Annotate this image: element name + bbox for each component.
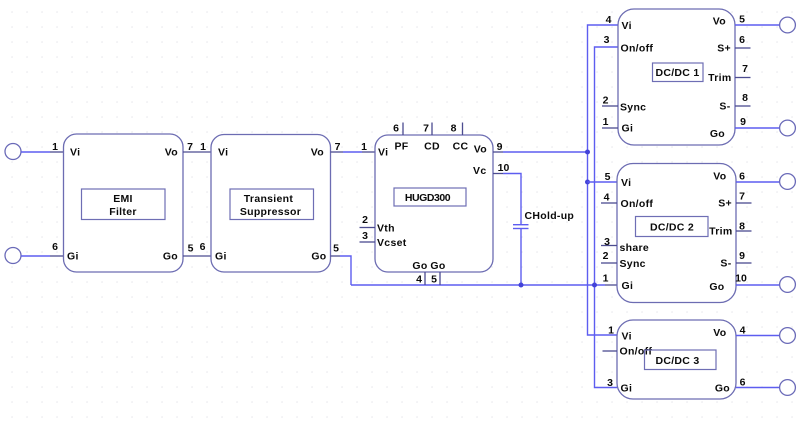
svg-text:Gi: Gi — [622, 123, 634, 135]
svg-text:4: 4 — [604, 192, 610, 204]
pin stub CD pin 7 — [431, 123, 433, 136]
wire HUGD Vo pin 9 to supply bus — [493, 151, 503, 153]
output terminal circle DCDC3 Go — [780, 380, 796, 396]
pin stub S+ pin 6 — [735, 47, 751, 49]
svg-text:Vi: Vi — [378, 147, 388, 159]
svg-text:S+: S+ — [718, 198, 732, 210]
pin stub Trim pin 8 — [736, 230, 752, 232]
svg-text:9: 9 — [739, 250, 745, 262]
svg-text:Vi: Vi — [621, 177, 631, 189]
pin stub PF pin 6 — [402, 123, 404, 136]
svg-text:Go: Go — [412, 260, 427, 272]
svg-text:Vcset: Vcset — [377, 237, 407, 249]
wire input to EMI Vi — [21, 151, 50, 153]
svg-text:Gi: Gi — [215, 251, 227, 263]
junction supply bus / DCDC2 Vi — [585, 180, 590, 185]
svg-text:8: 8 — [451, 123, 457, 135]
pin stub S- pin 8 — [735, 105, 751, 107]
svg-text:Go: Go — [430, 260, 445, 272]
pin stub Go pin 5 — [439, 272, 441, 285]
svg-text:S+: S+ — [717, 43, 731, 55]
output terminal circle DCDC1 Go — [780, 120, 796, 136]
EMI Filter label box — [82, 189, 166, 220]
wire DCDC2 Go pin 10 to output — [736, 284, 780, 286]
pin stub CC pin 8 — [462, 123, 464, 136]
svg-text:3: 3 — [362, 230, 368, 242]
svg-text:7: 7 — [739, 191, 745, 203]
pin stub On/off pin 4 — [601, 202, 617, 204]
svg-text:9: 9 — [497, 141, 503, 153]
HUGD300 block — [375, 135, 493, 272]
output terminal circle DCDC2 Go — [780, 277, 796, 293]
svg-text:6: 6 — [200, 241, 206, 253]
ground bus (bottom horizontal wire) — [351, 284, 605, 286]
DC/DC 3 block — [617, 320, 736, 399]
output terminal circle DCDC1 Vo — [780, 17, 796, 33]
svg-text:Go: Go — [311, 251, 326, 263]
pin stub S- pin 9 — [736, 262, 752, 264]
Transient Suppressor block — [211, 135, 331, 273]
wire TS Vo to HUGD300 Vi — [331, 151, 344, 153]
capacitor CHold-up — [513, 224, 529, 226]
svg-text:10: 10 — [498, 162, 510, 174]
svg-text:CC: CC — [453, 141, 469, 153]
svg-text:On/off: On/off — [620, 346, 653, 358]
svg-text:4: 4 — [416, 274, 422, 286]
svg-text:7: 7 — [742, 63, 748, 75]
svg-text:5: 5 — [605, 171, 611, 183]
svg-text:2: 2 — [362, 214, 368, 226]
svg-text:Vth: Vth — [377, 223, 395, 235]
wire HUGD Vc pin 10 to CHold-up — [493, 173, 503, 175]
svg-text:Vi: Vi — [70, 147, 80, 159]
input terminal circle (bottom left) — [5, 248, 21, 264]
svg-text:1: 1 — [200, 141, 206, 153]
output terminal circle DCDC2 Vo — [780, 174, 796, 190]
svg-text:6: 6 — [740, 377, 746, 389]
pin stub EMI Gi pin 6 — [50, 255, 64, 257]
svg-text:Vo: Vo — [165, 147, 178, 159]
DC/DC 3 label box — [645, 350, 717, 370]
svg-text:6: 6 — [52, 241, 58, 253]
svg-text:Gi: Gi — [621, 383, 633, 395]
svg-text:Gi: Gi — [622, 280, 634, 292]
svg-text:2: 2 — [603, 250, 609, 262]
DC/DC 1 block — [618, 9, 735, 145]
svg-text:Go: Go — [710, 128, 725, 140]
svg-text:Transient: Transient — [244, 193, 294, 205]
wire DCDC1 Go pin 9 to output — [735, 127, 780, 129]
svg-text:PF: PF — [394, 141, 408, 153]
DC/DC 1 label box — [653, 63, 704, 82]
svg-text:Vi: Vi — [218, 147, 228, 159]
svg-text:share: share — [620, 242, 650, 254]
junction ground bus / on-off bus — [592, 283, 597, 288]
svg-text:7: 7 — [187, 141, 193, 153]
svg-text:6: 6 — [393, 123, 399, 135]
svg-text:CD: CD — [424, 141, 440, 153]
svg-text:7: 7 — [423, 123, 429, 135]
svg-text:Vi: Vi — [622, 331, 632, 343]
svg-text:Suppressor: Suppressor — [240, 206, 301, 218]
svg-text:3: 3 — [604, 34, 610, 46]
svg-text:S-: S- — [719, 101, 730, 113]
svg-text:Trim: Trim — [709, 226, 732, 238]
on/off bus (vertical) — [595, 47, 619, 388]
wire DCDC1 Vo pin 5 to output — [735, 24, 780, 26]
svg-text:On/off: On/off — [621, 43, 654, 55]
pin stub share pin 3 — [601, 245, 617, 247]
pin stub On/off (DCDC3) — [603, 350, 618, 352]
input terminal circle (top left) — [5, 144, 21, 160]
wire DCDC3 Go pin 6 to output — [736, 387, 780, 389]
stub ground bus to DCDC2 Gi — [605, 284, 617, 286]
wire EMI Go to TS Gi — [183, 255, 211, 257]
svg-text:1: 1 — [603, 116, 609, 128]
svg-text:1: 1 — [361, 141, 367, 153]
svg-text:HUGD300: HUGD300 — [405, 192, 451, 204]
pin stub S+ pin 7 — [736, 202, 752, 204]
pin stub Gi pin 1 — [602, 127, 618, 129]
HUGD300 label box — [394, 188, 466, 206]
wire DCDC3 Vo pin 4 to output — [736, 335, 780, 337]
svg-text:DC/DC 2: DC/DC 2 — [650, 222, 694, 234]
svg-text:8: 8 — [739, 221, 745, 233]
svg-text:3: 3 — [604, 236, 610, 248]
svg-text:Go: Go — [163, 251, 178, 263]
svg-text:Trim: Trim — [708, 72, 731, 84]
svg-text:Vo: Vo — [713, 16, 726, 28]
svg-text:On/off: On/off — [621, 198, 654, 210]
EMI Filter block — [64, 134, 184, 272]
output terminal circle DCDC3 Vo — [780, 328, 796, 344]
svg-text:S-: S- — [720, 258, 731, 270]
svg-text:DC/DC 3: DC/DC 3 — [655, 355, 699, 367]
svg-text:Go: Go — [715, 383, 730, 395]
svg-text:Go: Go — [709, 281, 724, 293]
svg-text:1: 1 — [608, 325, 614, 337]
pin stub Vcset pin 3 — [360, 241, 376, 243]
svg-text:Sync: Sync — [620, 258, 646, 270]
svg-text:Vi: Vi — [622, 20, 632, 32]
svg-text:8: 8 — [742, 92, 748, 104]
svg-text:10: 10 — [735, 273, 747, 285]
svg-text:9: 9 — [740, 116, 746, 128]
svg-text:Vo: Vo — [713, 327, 726, 339]
DC/DC 2 block — [617, 164, 736, 303]
svg-text:Vo: Vo — [474, 144, 487, 156]
svg-text:Vc: Vc — [473, 165, 486, 177]
svg-text:5: 5 — [431, 274, 437, 286]
svg-text:1: 1 — [603, 273, 609, 285]
svg-text:3: 3 — [607, 377, 613, 389]
svg-text:Sync: Sync — [620, 102, 646, 114]
svg-text:1: 1 — [52, 141, 58, 153]
svg-text:EMI: EMI — [113, 193, 133, 205]
pin stub Sync pin 2 — [602, 105, 618, 107]
svg-text:6: 6 — [739, 171, 745, 183]
junction CHold-up to ground bus — [519, 283, 524, 288]
svg-text:Vo: Vo — [311, 147, 324, 159]
wire DCDC2 Vo pin 6 to output — [736, 181, 780, 183]
wire EMI Vo to TS Vi — [183, 151, 211, 153]
svg-text:7: 7 — [335, 141, 341, 153]
pin stub Vth pin 2 — [360, 227, 376, 229]
pin stub Sync pin 2 — [601, 262, 617, 264]
Transient Suppressor label box — [230, 189, 314, 220]
svg-text:Gi: Gi — [67, 251, 79, 263]
pin stub Go pin 4 — [424, 272, 426, 285]
svg-text:4: 4 — [606, 14, 612, 26]
svg-text:5: 5 — [188, 243, 194, 255]
DC/DC 2 label box — [636, 217, 709, 237]
supply bus (vertical) — [588, 25, 619, 335]
svg-text:DC/DC 1: DC/DC 1 — [655, 67, 699, 79]
svg-text:Filter: Filter — [109, 206, 136, 218]
junction supply bus / HUGD Vo — [585, 150, 590, 155]
svg-text:6: 6 — [739, 34, 745, 46]
svg-text:Vo: Vo — [713, 171, 726, 183]
svg-text:5: 5 — [333, 243, 339, 255]
wire TS Go pin 5 to ground bus — [331, 255, 341, 257]
wire input to EMI Gi — [21, 255, 50, 257]
wire supply bus to DCDC2 Vi — [588, 181, 618, 183]
svg-text:CHold-up: CHold-up — [525, 210, 575, 222]
pin stub EMI Vi pin 1 — [50, 151, 64, 153]
svg-text:5: 5 — [739, 14, 745, 26]
svg-text:2: 2 — [603, 95, 609, 107]
svg-text:4: 4 — [740, 325, 746, 337]
pin stub Trim pin 7 — [735, 77, 751, 79]
